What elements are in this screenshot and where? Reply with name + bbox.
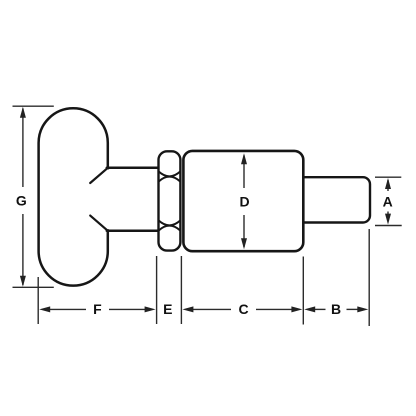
dim C line left segment — [191, 308, 231, 310]
arrowhead D down — [241, 238, 247, 249]
dim G bottom extension line — [13, 286, 54, 288]
dim A line lower segment — [387, 212, 389, 221]
dim G top extension line — [13, 105, 54, 107]
hex nut body — [159, 151, 181, 250]
dim F line left segment — [47, 308, 87, 310]
dim B line left segment — [313, 308, 326, 310]
arrowhead G down — [20, 276, 26, 287]
arrowhead C left — [182, 306, 193, 312]
wire: patch erasing handle edge at neck — [105, 169, 110, 229]
arrowhead B left — [304, 306, 315, 312]
hex facet top boundary arc up — [159, 177, 181, 182]
fillet line top — [90, 168, 107, 183]
svg-text:E: E — [163, 301, 172, 317]
arrowhead D up — [241, 153, 247, 164]
neck top edge — [107, 167, 160, 170]
svg-text:A: A — [383, 194, 393, 210]
svg-text:B: B — [331, 301, 341, 317]
arrowhead A down — [385, 214, 391, 225]
svg-text:D: D — [240, 193, 250, 209]
svg-text:F: F — [93, 301, 102, 317]
neck bottom edge — [107, 230, 160, 233]
dim G line upper segment — [22, 109, 24, 188]
arrowhead G up — [20, 107, 26, 118]
extension line hex-left — [156, 256, 158, 324]
hex facet top boundary arc down — [159, 172, 181, 177]
svg-text:C: C — [238, 301, 248, 317]
arrowhead A up — [385, 178, 391, 189]
extension line body-right — [302, 257, 304, 325]
dim A bottom extension line — [375, 225, 402, 227]
fillet line bottom — [90, 216, 107, 231]
pin shaft — [298, 177, 370, 222]
hex facet bottom boundary arc up — [159, 226, 181, 231]
dim D line lower segment — [243, 215, 245, 247]
svg-text:G: G — [16, 192, 27, 208]
dim C line right segment — [256, 308, 294, 310]
dim G line lower segment — [22, 214, 24, 285]
arrowhead F left — [39, 306, 50, 312]
extension line pin-right — [368, 229, 370, 326]
arrowhead F right — [145, 306, 156, 312]
arrowhead C right — [291, 306, 302, 312]
dim B line right segment — [347, 308, 360, 310]
dim D line upper segment — [243, 156, 245, 189]
handle knob (T-handle) — [39, 108, 108, 285]
dim F line right segment — [109, 308, 148, 310]
arrowhead B right — [357, 306, 368, 312]
extension line hex-right — [180, 256, 182, 324]
extension line handle-left — [37, 277, 39, 324]
dim A top extension line — [375, 176, 401, 178]
dim A line upper segment — [387, 180, 389, 191]
main cylindrical body — [183, 151, 303, 251]
hex facet bottom boundary arc down — [159, 221, 181, 226]
